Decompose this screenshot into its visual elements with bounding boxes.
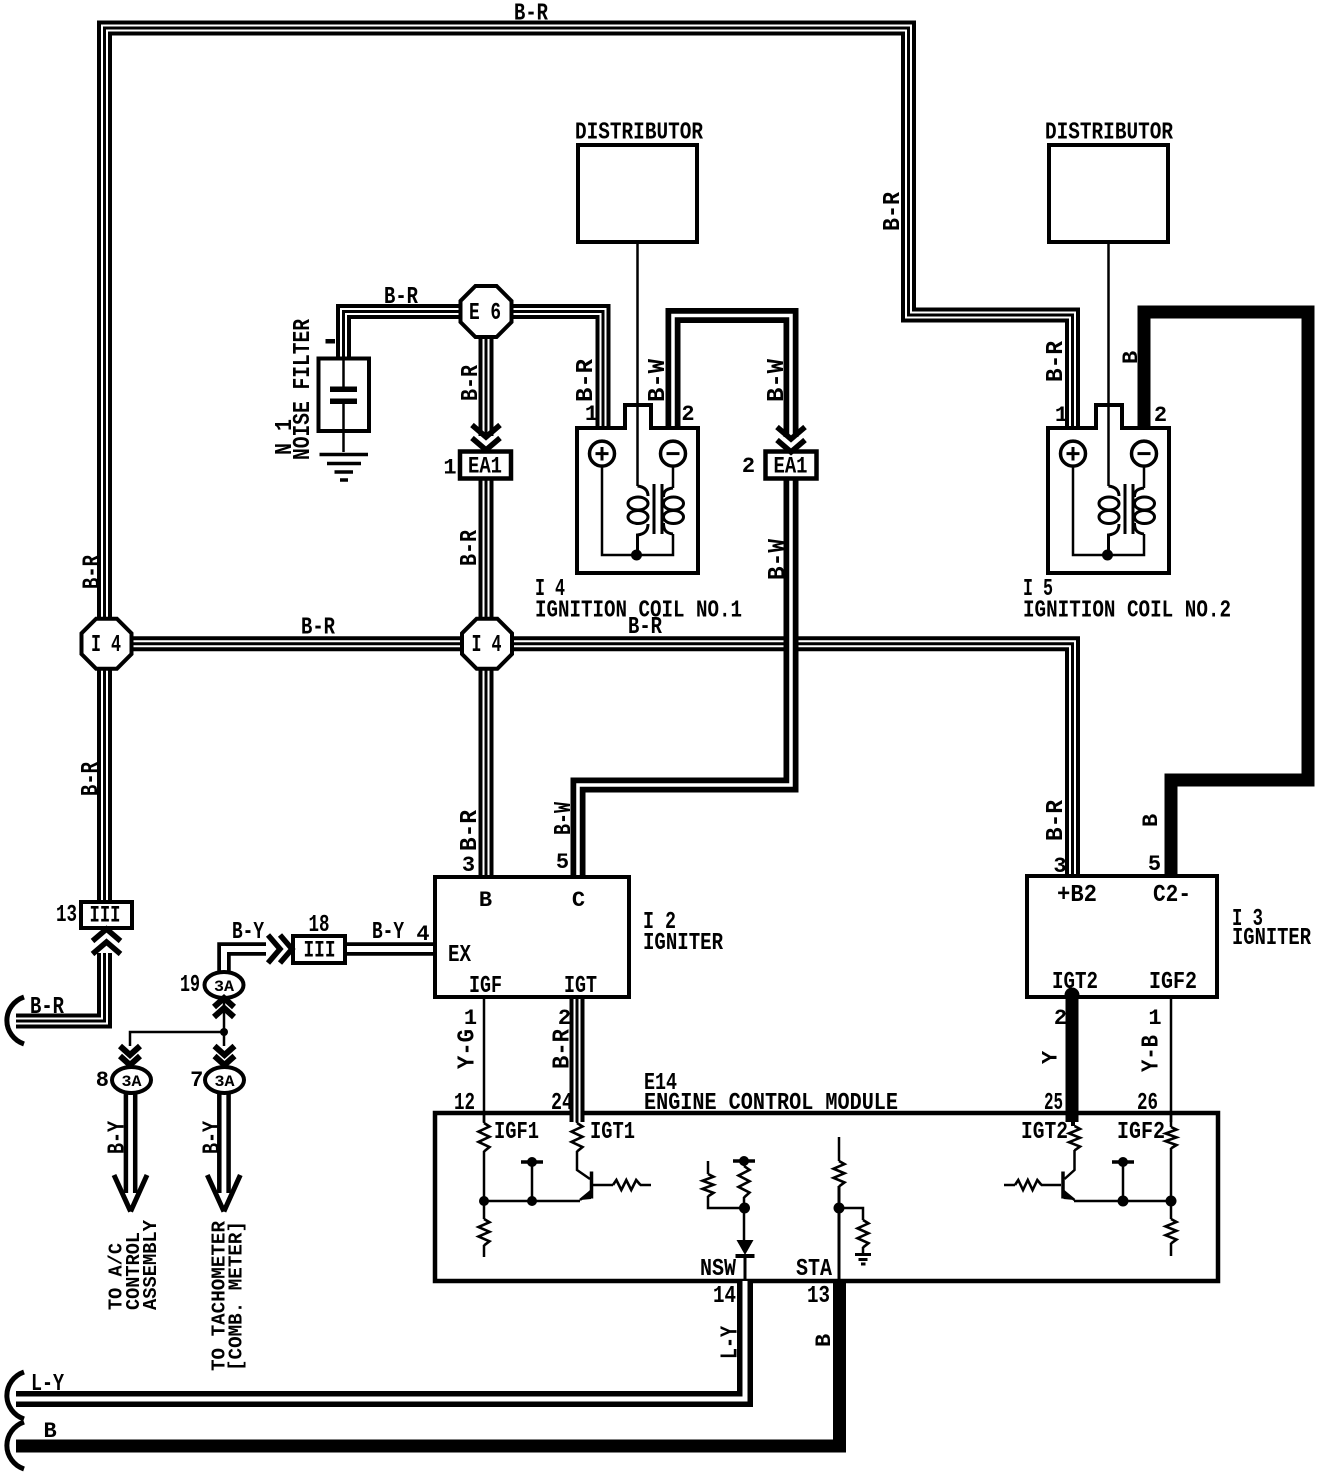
- svg-text:B-Y: B-Y: [372, 919, 404, 946]
- svg-text:EA1: EA1: [468, 454, 502, 480]
- wire B-W EA1-2 to igniter I2 C: [578, 478, 791, 875]
- wire B-R E6 to coil I4 pin1: [511, 312, 603, 427]
- diode NSW: [737, 1240, 754, 1255]
- svg-text:4: 4: [416, 922, 429, 947]
- ECM resistor IGT1: [576, 1113, 579, 1123]
- STA ground branch resistor: [839, 1208, 863, 1220]
- distributor 1 box: [578, 145, 697, 242]
- page connector curl B: [7, 1422, 24, 1469]
- svg-text:5: 5: [556, 850, 569, 875]
- transistor Q1: [577, 1151, 590, 1179]
- svg-text:III: III: [304, 938, 336, 964]
- wire L-Y ECM NSW pin 14 to page exit: [16, 1281, 745, 1399]
- wire wire junction to 3A-7: [223, 1032, 226, 1046]
- svg-text:26: 26: [1137, 1090, 1158, 1117]
- svg-text:B: B: [1139, 814, 1164, 827]
- coil I5 internal wiring: [1073, 466, 1144, 555]
- svg-text:13: 13: [807, 1283, 830, 1310]
- ECM resistor IGT2: [1071, 1113, 1075, 1126]
- ECM supply symbol 1: [531, 1162, 534, 1201]
- junction NSW: [739, 1203, 750, 1214]
- coil I4 distributor lead wire: [636, 242, 639, 486]
- ECM resistor IGF1: [483, 1113, 486, 1123]
- wire B-R EA1-1 to octagon: [479, 478, 494, 622]
- svg-text:3: 3: [462, 853, 475, 878]
- svg-text:IGNITION COIL NO.2: IGNITION COIL NO.2: [1023, 598, 1231, 625]
- svg-text:18: 18: [309, 912, 330, 939]
- svg-text:1: 1: [464, 1006, 477, 1031]
- wire B-R noise filter to E6: [344, 312, 462, 358]
- wire B-R E6 to connector EA1-1: [479, 336, 494, 436]
- svg-text:3A: 3A: [214, 978, 234, 996]
- svg-text:Y: Y: [1039, 1050, 1064, 1064]
- svg-text:2: 2: [681, 402, 694, 427]
- svg-text:IGF2: IGF2: [1117, 1119, 1165, 1146]
- coil I4 core: [654, 484, 662, 534]
- ECM NSW supply symbol: [733, 1159, 755, 1163]
- svg-text:25: 25: [1044, 1090, 1063, 1117]
- arrow into 3A-7: [215, 1046, 235, 1055]
- svg-text:NSW: NSW: [700, 1256, 736, 1283]
- wire B-Y III-18 to connector 3A-19: [224, 949, 266, 971]
- svg-text:B-W: B-W: [765, 538, 792, 580]
- svg-text:B-W: B-W: [645, 358, 672, 402]
- svg-text:+B2: +B2: [1057, 882, 1097, 909]
- svg-text:B-W: B-W: [764, 358, 791, 402]
- arrow to A/C control assembly: [126, 1093, 135, 1193]
- noise filter capacitor: [342, 360, 345, 452]
- svg-text:IGF: IGF: [469, 973, 502, 1000]
- coil I4 junction: [631, 550, 642, 561]
- arrow into 3A-8: [120, 1046, 140, 1055]
- ground STA: [855, 1255, 871, 1265]
- svg-text:1: 1: [443, 456, 456, 481]
- wire B-R octagon link: [131, 636, 462, 651]
- ECM NSW network resistor A: [707, 1161, 710, 1174]
- noise filter N1 box: [319, 359, 370, 432]
- Q2 base resistor: [1041, 1184, 1061, 1187]
- svg-text:B: B: [44, 1419, 57, 1444]
- connector EA1 pin1 box: [460, 452, 511, 479]
- svg-text:IGNITION COIL NO.1: IGNITION COIL NO.1: [535, 598, 742, 625]
- svg-text:DISTRIBUTOR: DISTRIBUTOR: [1045, 120, 1173, 147]
- wire wire 3A-19 to junction: [223, 998, 226, 1032]
- ECM node wire IGT2: [1074, 1200, 1171, 1203]
- svg-text:L-Y: L-Y: [31, 1371, 64, 1398]
- svg-text:L-Y: L-Y: [718, 1326, 745, 1359]
- svg-text:E 6: E 6: [469, 300, 501, 327]
- svg-text:ENGINE CONTROL MODULE: ENGINE CONTROL MODULE: [644, 1090, 898, 1117]
- ECM supply symbol 2: [1122, 1162, 1125, 1201]
- svg-text:5: 5: [1148, 852, 1161, 877]
- ECM pull resistor below IGF2: [1166, 1219, 1177, 1243]
- coil I4 internal wiring: [602, 466, 673, 555]
- svg-text:2: 2: [1054, 1006, 1067, 1031]
- junction IGT2 pin: [1065, 988, 1080, 1003]
- svg-text:III: III: [90, 903, 121, 929]
- distributor 2 box: [1049, 145, 1168, 242]
- junction nodes IGT2/IGF2: [527, 1196, 537, 1206]
- wire wire junction to 3A-8: [130, 1032, 224, 1046]
- arrow into EA1-1: [472, 425, 500, 437]
- coil I5 junction: [1102, 550, 1113, 561]
- wire B-R igniter IGT to ECM pin 24: [570, 997, 585, 1122]
- wire Y-G igniter IGF to ECM pin 12: [483, 997, 486, 1122]
- wire B-Y igniter EX to connector III-18: [346, 942, 435, 956]
- wire B-R octagon to igniter I2 B: [479, 666, 494, 875]
- svg-text:B-R: B-R: [1043, 340, 1070, 382]
- svg-text:IGF2: IGF2: [1149, 969, 1197, 996]
- svg-text:B-Y: B-Y: [232, 919, 264, 946]
- igniter I3 box: [1027, 876, 1217, 997]
- svg-text:2: 2: [1154, 403, 1167, 428]
- ignition coil I5 box: [1048, 405, 1169, 573]
- svg-text:I 4: I 4: [91, 632, 121, 659]
- svg-text:3: 3: [1053, 854, 1066, 879]
- svg-text:C: C: [572, 888, 585, 913]
- svg-text:B: B: [1119, 351, 1144, 364]
- page connector curl B-R: [7, 997, 24, 1044]
- connector III pin18 box: [293, 936, 345, 963]
- wire B coil I5 pin2 to igniter I3 C2-: [1144, 312, 1308, 874]
- arrow into III-18: [268, 935, 280, 963]
- Q1 base resistor: [593, 1184, 613, 1187]
- svg-text:B-R: B-R: [384, 284, 418, 311]
- svg-text:1: 1: [1055, 403, 1068, 428]
- wire B-R exit bottom left: [16, 953, 105, 1021]
- ground: [320, 455, 369, 481]
- svg-text:IGT2: IGT2: [1052, 969, 1098, 996]
- wire B-R left to connector III-13: [97, 666, 112, 903]
- svg-text:3A: 3A: [215, 1073, 235, 1091]
- noise filter polarity mark: [326, 339, 336, 344]
- wire B-R main top loop: [105, 28, 1073, 622]
- svg-text:B-R: B-R: [457, 530, 484, 566]
- svg-text:1: 1: [585, 402, 598, 427]
- arrow into III-13: [93, 929, 121, 941]
- svg-text:I 4: I 4: [472, 632, 502, 659]
- svg-text:DISTRIBUTOR: DISTRIBUTOR: [575, 120, 703, 147]
- svg-text:IGT: IGT: [564, 973, 597, 1000]
- svg-text:19: 19: [180, 972, 200, 999]
- coil I5 plus terminal: [1061, 441, 1086, 466]
- junction STA: [834, 1203, 845, 1214]
- svg-text:B-R: B-R: [457, 809, 484, 851]
- svg-text:B: B: [812, 1334, 837, 1347]
- svg-text:8: 8: [96, 1068, 109, 1093]
- svg-text:12: 12: [454, 1090, 475, 1117]
- svg-text:1: 1: [1148, 1006, 1161, 1031]
- coil I5 primary winding: [1109, 486, 1120, 496]
- svg-text:B-R: B-R: [1043, 799, 1070, 841]
- ignition coil I4 box: [577, 405, 698, 573]
- engine control module E14 box: [435, 1113, 1218, 1281]
- wire B ECM STA pin 13 to page exit: [16, 1281, 840, 1446]
- svg-text:B-R: B-R: [80, 555, 107, 589]
- svg-text:IGNITER: IGNITER: [643, 930, 723, 957]
- svg-text:B-R: B-R: [514, 1, 548, 28]
- coil I5 minus terminal: [1132, 441, 1157, 466]
- svg-text:EX: EX: [448, 942, 471, 969]
- coil I4 primary winding: [638, 486, 649, 496]
- svg-text:STA: STA: [796, 1256, 832, 1283]
- wire Y igniter IGT2 to ECM pin 25: [1066, 997, 1079, 1122]
- arrow into EA1-2: [777, 427, 805, 439]
- wire B-W coil I4 pin2 to EA1-2: [673, 316, 791, 438]
- coil I5 distributor lead wire: [1107, 242, 1110, 486]
- ECM pull resistor below IGF1: [479, 1219, 490, 1245]
- coil I4 minus terminal: [661, 441, 686, 466]
- transistor Q2: [1065, 1150, 1075, 1179]
- ECM STA resistor: [838, 1137, 841, 1161]
- page connector curl L-Y: [7, 1372, 24, 1419]
- wire Y-B igniter IGF2 to ECM pin 26: [1170, 997, 1173, 1122]
- coil I5 secondary winding: [1135, 488, 1145, 497]
- svg-text:B-R: B-R: [573, 358, 600, 402]
- svg-text:ASSEMBLY: ASSEMBLY: [140, 1219, 162, 1310]
- ECM NSW resistor B: [743, 1164, 746, 1166]
- svg-text:B-R: B-R: [458, 365, 485, 401]
- node I4 octagon middle: [462, 619, 512, 669]
- svg-text:14: 14: [713, 1283, 736, 1310]
- connector 3A pin7 oval: [205, 1067, 244, 1093]
- svg-text:Y-G: Y-G: [455, 1029, 482, 1069]
- coil I4 secondary winding: [664, 488, 674, 497]
- connector III pin13 box: [81, 902, 132, 928]
- svg-text:EA1: EA1: [774, 454, 808, 480]
- svg-text:Y-B: Y-B: [1139, 1035, 1166, 1072]
- svg-text:IGT2: IGT2: [1021, 1119, 1068, 1146]
- connector 3A pin8 oval: [112, 1067, 151, 1093]
- ECM resistor IGF2: [1170, 1113, 1173, 1127]
- arrow to tachometer: [219, 1093, 228, 1193]
- node E6 octagon: [461, 286, 512, 337]
- wire B-R to igniter I3 +B2: [512, 644, 1073, 874]
- node I4 octagon left: [82, 619, 132, 669]
- svg-text:IGNITER: IGNITER: [1232, 925, 1311, 952]
- coil I5 core: [1125, 484, 1133, 534]
- svg-text:B: B: [479, 888, 492, 913]
- svg-text:B-R: B-R: [301, 615, 335, 642]
- ECM node wire IGF1: [484, 1200, 580, 1203]
- igniter I2 box: [435, 877, 629, 997]
- svg-text:24: 24: [551, 1090, 573, 1117]
- connector 3A pin19 oval: [205, 972, 244, 998]
- svg-text:B-R: B-R: [550, 1028, 577, 1069]
- svg-text:2: 2: [558, 1006, 571, 1031]
- svg-text:B-Y: B-Y: [105, 1121, 132, 1154]
- coil I4 plus terminal: [590, 441, 615, 466]
- connector EA1 pin2 box: [766, 452, 817, 479]
- svg-text:C2-: C2-: [1153, 882, 1191, 909]
- svg-text:IGT1: IGT1: [590, 1119, 635, 1146]
- svg-text:B-Y: B-Y: [200, 1121, 227, 1154]
- svg-text:3A: 3A: [122, 1073, 142, 1091]
- svg-text:NOISE FILTER: NOISE FILTER: [290, 319, 317, 460]
- svg-text:B-R: B-R: [78, 762, 105, 796]
- svg-text:[COMB. METER]: [COMB. METER]: [226, 1221, 248, 1371]
- svg-text:B-W: B-W: [551, 802, 578, 835]
- svg-text:IGF1: IGF1: [494, 1119, 539, 1146]
- svg-text:2: 2: [742, 454, 755, 479]
- junction node: [220, 1028, 228, 1036]
- svg-text:B-R: B-R: [880, 191, 907, 231]
- svg-text:B-R: B-R: [30, 994, 64, 1021]
- svg-text:13: 13: [56, 902, 77, 929]
- arrow into 3A-19: [214, 998, 234, 1007]
- svg-text:7: 7: [190, 1068, 203, 1093]
